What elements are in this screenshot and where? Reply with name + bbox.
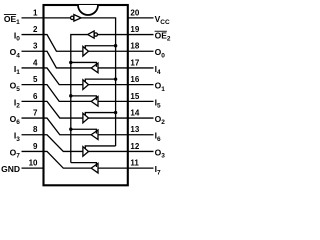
svg-text:15: 15 xyxy=(130,92,139,101)
svg-text:12: 12 xyxy=(130,142,139,151)
svg-text:19: 19 xyxy=(130,25,139,34)
svg-text:10: 10 xyxy=(29,159,38,168)
svg-text:8: 8 xyxy=(33,125,38,134)
svg-text:6: 6 xyxy=(33,92,38,101)
svg-text:GND: GND xyxy=(1,164,20,174)
svg-text:1: 1 xyxy=(33,8,38,17)
svg-text:13: 13 xyxy=(130,125,139,134)
svg-text:18: 18 xyxy=(130,42,139,51)
svg-text:20: 20 xyxy=(130,8,139,17)
svg-text:14: 14 xyxy=(130,108,139,117)
svg-text:16: 16 xyxy=(130,75,139,84)
svg-text:4: 4 xyxy=(33,58,38,67)
svg-text:9: 9 xyxy=(33,142,38,151)
svg-text:17: 17 xyxy=(130,58,139,67)
svg-text:11: 11 xyxy=(130,159,139,168)
svg-text:2: 2 xyxy=(33,25,38,34)
svg-text:7: 7 xyxy=(33,108,38,117)
svg-text:3: 3 xyxy=(33,42,38,51)
svg-text:5: 5 xyxy=(33,75,38,84)
